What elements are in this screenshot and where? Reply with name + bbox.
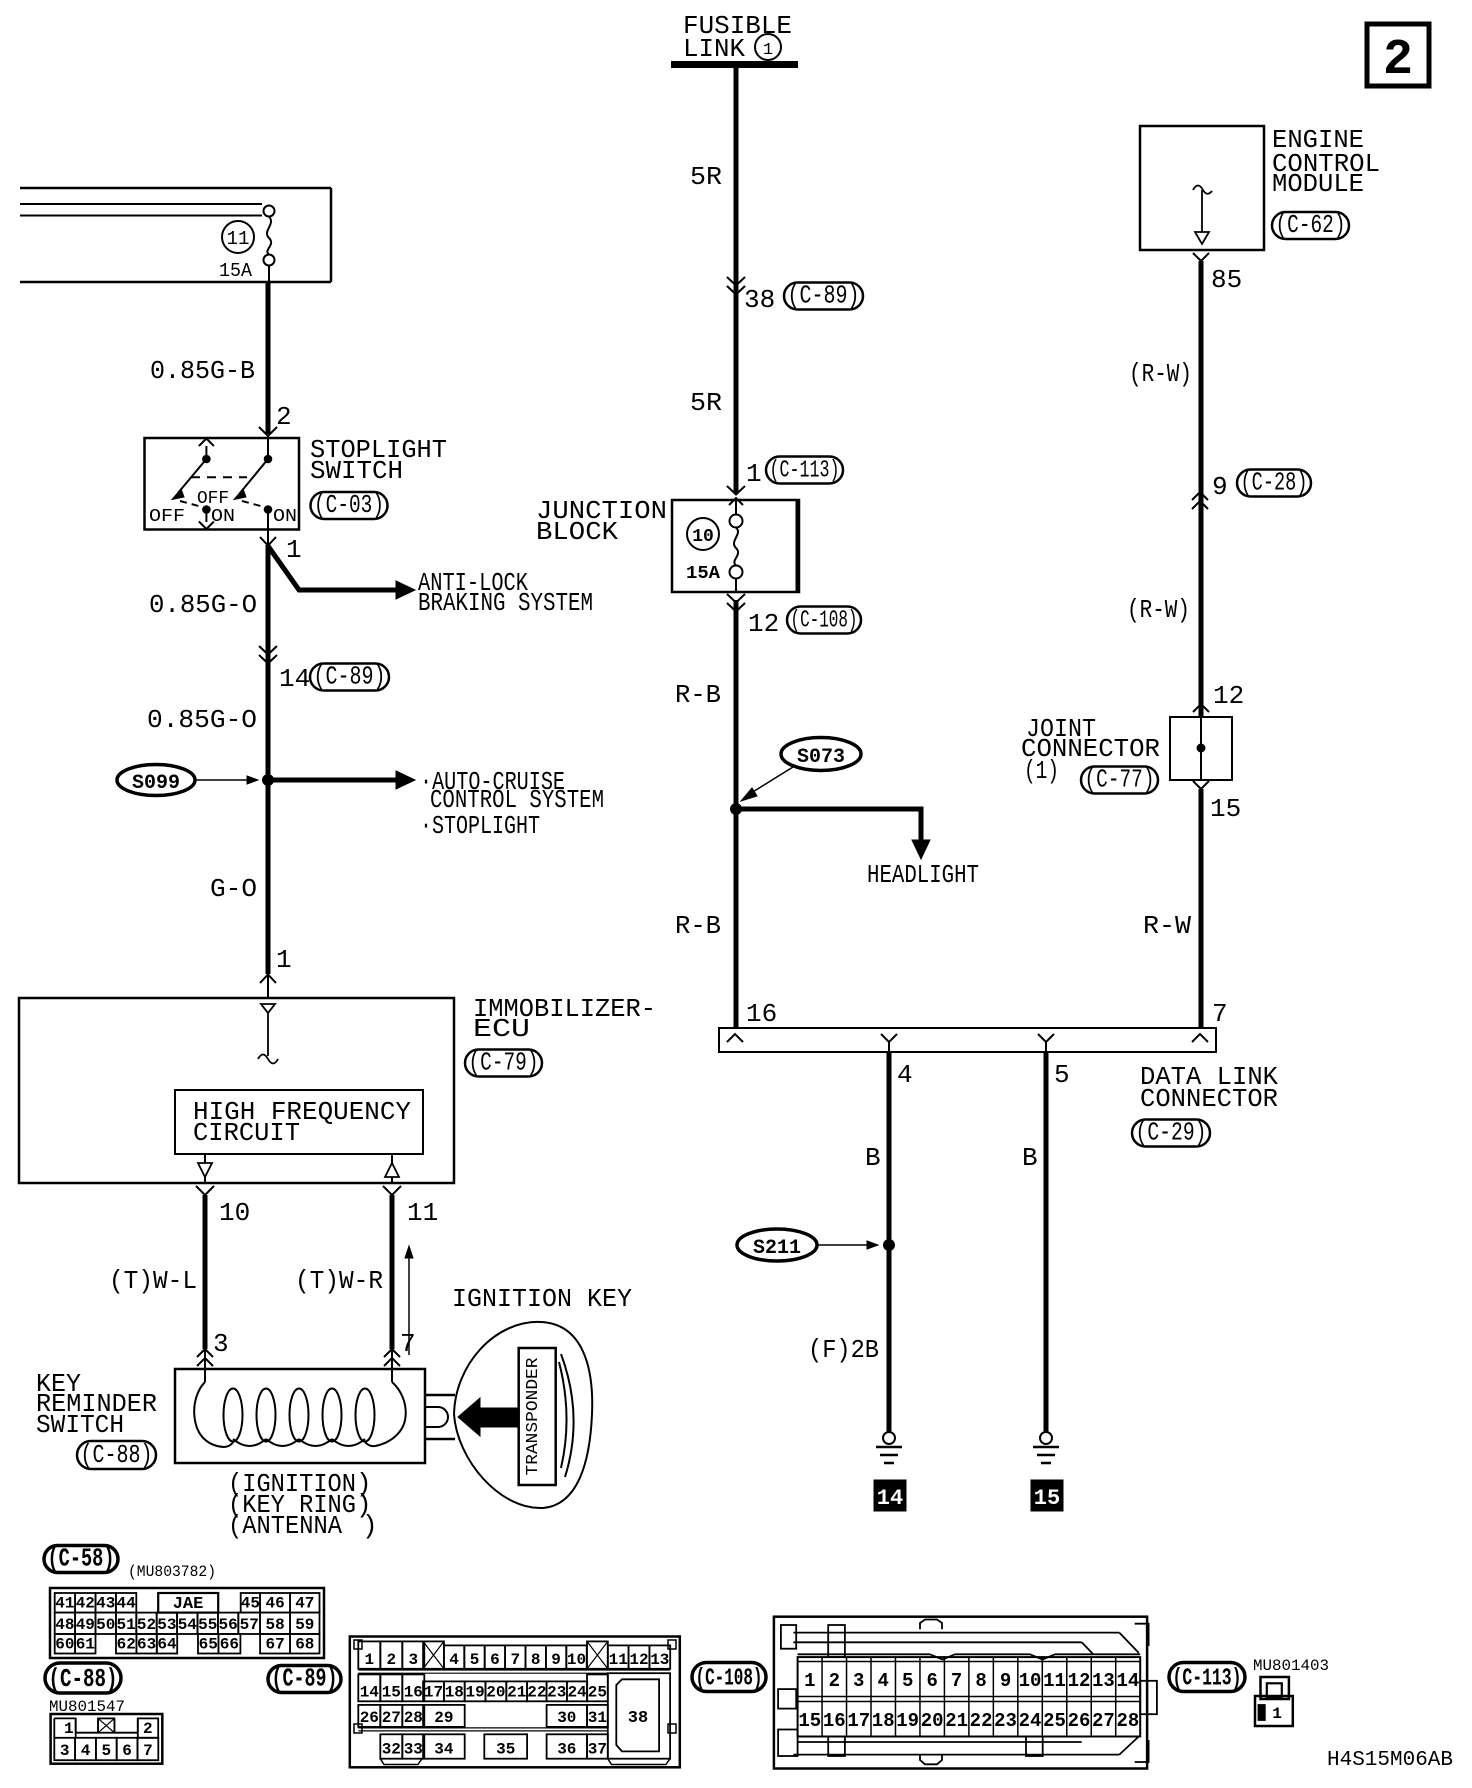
svg-text:10: 10 (567, 1651, 586, 1669)
wire label G-O (210, 874, 257, 904)
svg-text:(C-79): (C-79) (469, 1048, 539, 1078)
label MU801403 (1253, 1657, 1329, 1675)
svg-text:4: 4 (897, 1060, 913, 1090)
wire 5R (fusible link down) (690, 68, 736, 493)
connector pin diagram C-89 (350, 1637, 680, 1768)
junction block (top-left fragment) (20, 188, 331, 282)
junction node (S211 splice point) (884, 1240, 895, 1251)
svg-text:(C-28): (C-28) (1241, 468, 1308, 498)
svg-text:5: 5 (101, 1742, 111, 1760)
connector MU801403 pin diagram (1255, 1677, 1293, 1726)
svg-text:26: 26 (1068, 1710, 1091, 1732)
svg-text:BRAKING SYSTEM: BRAKING SYSTEM (418, 588, 593, 618)
svg-text:41: 41 (55, 1595, 74, 1613)
svg-text:11: 11 (609, 1651, 628, 1669)
svg-text:(F)2B: (F)2B (808, 1335, 879, 1365)
svg-text:2: 2 (386, 1651, 396, 1669)
splice S073 (741, 738, 861, 802)
svg-text:9: 9 (1212, 472, 1228, 502)
svg-text:85: 85 (1211, 265, 1242, 295)
svg-text:(R-W): (R-W) (1127, 595, 1190, 625)
svg-text:SWITCH: SWITCH (36, 1410, 124, 1440)
svg-text:12: 12 (1068, 1670, 1091, 1692)
connector label C-58 (44, 1544, 118, 1574)
node pin 7 of data link connector (1212, 999, 1228, 1029)
connector label C-88 (bottom) (45, 1663, 121, 1694)
splice S211 (737, 1229, 878, 1261)
svg-text:10: 10 (692, 527, 714, 547)
svg-text:21: 21 (945, 1710, 968, 1732)
svg-text:15: 15 (798, 1710, 821, 1732)
svg-text:62: 62 (117, 1636, 136, 1654)
connector label C-108 (bottom) (692, 1663, 766, 1693)
wire B (pin 5 to ground 15) (1022, 1052, 1046, 1432)
antenna symbol inside immobilizer ECU (258, 1004, 278, 1064)
connector label C-03 (311, 490, 388, 520)
connector pin diagram C-113 (774, 1617, 1157, 1769)
ground 14 (874, 1432, 906, 1511)
svg-text:52: 52 (137, 1616, 156, 1634)
terminal triangle (pin 10, open down) (198, 1154, 212, 1183)
svg-text:ON: ON (273, 507, 297, 527)
branch wire to anti-lock braking system (268, 546, 593, 618)
svg-text:43: 43 (96, 1595, 115, 1613)
svg-text:(1): (1) (1024, 756, 1059, 786)
svg-text:7: 7 (400, 1329, 416, 1359)
svg-text:18: 18 (872, 1710, 895, 1732)
svg-text:16: 16 (746, 999, 777, 1029)
svg-text:16: 16 (404, 1683, 423, 1701)
connector label C-89 (bottom) (268, 1664, 341, 1694)
wire G-O (splice to immobilizer pin 1) (266, 780, 271, 974)
node pin 1 of stoplight switch (260, 529, 302, 565)
svg-text:7: 7 (1212, 999, 1228, 1029)
svg-text:8: 8 (531, 1651, 541, 1669)
svg-text:H4S15M06AB: H4S15M06AB (1327, 1749, 1453, 1772)
splice S099 (117, 765, 258, 796)
svg-text:31: 31 (588, 1709, 607, 1727)
stoplight switch position labels (149, 489, 297, 527)
svg-text:(C-88): (C-88) (81, 1440, 153, 1470)
svg-text:1: 1 (276, 945, 292, 975)
svg-text:26: 26 (360, 1709, 379, 1727)
key head crescent detail (559, 1354, 574, 1477)
label ignition key ring antenna (228, 1469, 378, 1541)
wire label (F)2B (808, 1335, 879, 1365)
stoplight switch C-03 box (145, 438, 300, 530)
svg-text:66: 66 (220, 1636, 239, 1654)
svg-text:20: 20 (486, 1683, 505, 1701)
svg-text:56: 56 (218, 1616, 237, 1634)
node pin 16 of data link connector (746, 999, 777, 1029)
svg-text:(T)W-L: (T)W-L (109, 1266, 197, 1296)
svg-text:61: 61 (76, 1636, 95, 1654)
svg-text:50: 50 (96, 1616, 115, 1634)
svg-text:15: 15 (1034, 1486, 1060, 1511)
svg-text:10: 10 (1019, 1670, 1042, 1692)
svg-text:19: 19 (896, 1710, 919, 1732)
transponder arrow (points into key) (458, 1398, 519, 1436)
svg-text:0.85G-B: 0.85G-B (150, 356, 255, 386)
terminal triangle (pin 11, open up) (385, 1154, 399, 1183)
svg-text:34: 34 (434, 1741, 454, 1759)
high frequency circuit box (175, 1090, 423, 1154)
svg-text:(C-62): (C-62) (1276, 210, 1346, 240)
svg-text:57: 57 (240, 1616, 259, 1634)
svg-text:3: 3 (408, 1651, 418, 1669)
svg-text:S099: S099 (132, 772, 180, 795)
svg-text:(C-89): (C-89) (272, 1664, 338, 1694)
svg-text:CONNECTOR: CONNECTOR (1140, 1084, 1278, 1114)
svg-text:(R-W): (R-W) (1129, 359, 1192, 389)
junction block box (536, 496, 799, 592)
svg-text:5R: 5R (690, 388, 722, 418)
fuse 11 15A (219, 206, 275, 283)
svg-text:13: 13 (650, 1651, 669, 1669)
svg-text:38: 38 (744, 285, 775, 315)
inline connector 38 C-89 (727, 277, 863, 315)
svg-text:B: B (1022, 1143, 1038, 1173)
svg-text:MU801403: MU801403 (1253, 1657, 1329, 1675)
svg-text:(C-88): (C-88) (49, 1664, 118, 1694)
svg-text:65: 65 (199, 1636, 218, 1654)
svg-text:53: 53 (157, 1616, 176, 1634)
svg-text:(MU803782): (MU803782) (128, 1563, 216, 1581)
svg-text:13: 13 (1092, 1670, 1115, 1692)
svg-text:10: 10 (219, 1198, 250, 1228)
svg-text:11: 11 (407, 1198, 438, 1228)
wire 0.85G-O (pin 1 down) (266, 545, 271, 780)
svg-text:(C-113): (C-113) (1173, 1666, 1242, 1693)
svg-text:19: 19 (465, 1683, 484, 1701)
svg-text:46: 46 (265, 1595, 284, 1613)
svg-text:1: 1 (364, 1651, 374, 1669)
svg-text:28: 28 (1117, 1710, 1140, 1732)
svg-text:67: 67 (265, 1636, 284, 1654)
stoplight switch pole 2 contact (172, 439, 214, 530)
connector label C-88 (77, 1440, 156, 1470)
svg-text:60: 60 (55, 1636, 74, 1654)
svg-text:55: 55 (198, 1616, 217, 1634)
svg-text:51: 51 (116, 1616, 135, 1634)
svg-text:(C-108): (C-108) (791, 608, 858, 635)
node pin 15 of joint connector (1193, 781, 1241, 824)
svg-text:23: 23 (547, 1683, 566, 1701)
svg-text:7: 7 (951, 1670, 962, 1692)
label MU801547 (49, 1698, 125, 1716)
fuse 10 15A (junction block) (686, 498, 743, 592)
stoplight switch labels (310, 435, 447, 486)
svg-text:IGNITION KEY: IGNITION KEY (452, 1284, 632, 1314)
connector MU801547 pin diagram (51, 1714, 163, 1764)
wire R-B (junction block to splice S073) (675, 600, 736, 1028)
svg-text:1: 1 (64, 1720, 74, 1738)
svg-text:42: 42 (76, 1595, 95, 1613)
svg-text:MODULE: MODULE (1272, 169, 1364, 199)
svg-text:3: 3 (213, 1329, 229, 1359)
svg-text:7: 7 (143, 1742, 153, 1760)
svg-text:37: 37 (588, 1741, 607, 1759)
svg-text:30: 30 (557, 1709, 576, 1727)
junction node (S099 splice point) (263, 775, 274, 786)
node pin 12 C-108 (junction block exit) (727, 594, 861, 639)
wire B (pin 4 to ground 14) (865, 1052, 889, 1432)
key reminder switch labels (36, 1369, 157, 1440)
svg-text:54: 54 (178, 1616, 198, 1634)
svg-text:6: 6 (926, 1670, 937, 1692)
svg-text:0.85G-O: 0.85G-O (147, 705, 257, 735)
svg-text:12: 12 (629, 1651, 648, 1669)
wire label 0.85G-O (2nd) (147, 705, 257, 735)
svg-text:14: 14 (877, 1486, 903, 1511)
svg-text:ON: ON (211, 507, 235, 527)
node pin 4 (897, 1060, 913, 1090)
svg-text:1: 1 (763, 41, 773, 60)
junction node (S073 splice point) (731, 804, 742, 815)
svg-text:15: 15 (1210, 794, 1241, 824)
wire label 0.85G-O (149, 590, 257, 620)
svg-text:9: 9 (1000, 1670, 1011, 1692)
svg-text:(C-77): (C-77) (1085, 765, 1155, 795)
svg-text:B: B (865, 1143, 881, 1173)
inline connector 14 C-89 (259, 646, 389, 694)
svg-text:68: 68 (295, 1636, 314, 1654)
svg-text:16: 16 (823, 1710, 846, 1732)
svg-text:18: 18 (445, 1683, 464, 1701)
connector label C-113 (bottom) (1169, 1663, 1245, 1693)
svg-text:48: 48 (55, 1616, 74, 1634)
svg-text:27: 27 (382, 1709, 401, 1727)
wire (T)W-L (109, 1195, 205, 1369)
svg-text:CIRCUIT: CIRCUIT (193, 1118, 300, 1148)
svg-text:S073: S073 (797, 746, 845, 769)
svg-text:TRANSPONDER: TRANSPONDER (524, 1358, 543, 1476)
page number box 2 (1367, 24, 1429, 89)
immobilizer-ECU box C-79 (19, 998, 454, 1183)
svg-text:38: 38 (628, 1709, 648, 1728)
svg-text:6: 6 (490, 1651, 500, 1669)
svg-text:1: 1 (746, 459, 762, 489)
svg-text:47: 47 (295, 1595, 314, 1613)
svg-text:17: 17 (424, 1683, 443, 1701)
svg-text:59: 59 (295, 1616, 314, 1634)
data link connector labels (1132, 1062, 1278, 1148)
svg-text:6: 6 (122, 1742, 132, 1760)
svg-text:S211: S211 (753, 1237, 801, 1260)
svg-text:R-W: R-W (1143, 911, 1191, 941)
svg-text:2: 2 (829, 1670, 840, 1692)
node pin 10 (196, 1186, 250, 1228)
svg-text:7: 7 (510, 1651, 520, 1669)
svg-text:): ) (362, 1511, 378, 1541)
svg-text:(T)W-R: (T)W-R (295, 1266, 383, 1296)
svg-text:(C-89): (C-89) (788, 281, 860, 311)
svg-text:24: 24 (1019, 1710, 1042, 1732)
svg-text:4: 4 (81, 1742, 91, 1760)
svg-text:29: 29 (434, 1709, 453, 1727)
node pin 5 (1054, 1060, 1070, 1090)
wire R-W (joint connector to data link pin 7) (1143, 789, 1201, 1028)
svg-text:22: 22 (527, 1683, 546, 1701)
svg-text:5R: 5R (690, 162, 722, 192)
label ignition key (452, 1284, 632, 1314)
svg-text:33: 33 (404, 1741, 423, 1759)
ignition key head outline (454, 1322, 592, 1508)
svg-text:49: 49 (76, 1616, 95, 1634)
node pin 7 (384, 1329, 416, 1366)
svg-text:28: 28 (404, 1709, 423, 1727)
engine control module box C-62 (1140, 125, 1380, 250)
transponder box in key (519, 1348, 556, 1485)
svg-text:22: 22 (970, 1710, 993, 1732)
wire (bus lines into fuse 11) (20, 204, 262, 216)
svg-text:BLOCK: BLOCK (536, 517, 618, 547)
svg-text:(C-03): (C-03) (314, 490, 384, 520)
svg-text:20: 20 (921, 1710, 944, 1732)
svg-text:23: 23 (994, 1710, 1017, 1732)
label MU803782 (128, 1563, 216, 1581)
svg-text:5: 5 (470, 1651, 480, 1669)
joint connector (1) C-77 box (1021, 714, 1232, 795)
svg-text:(C-58): (C-58) (48, 1544, 115, 1574)
svg-text:44: 44 (116, 1595, 136, 1613)
svg-text:11: 11 (227, 228, 250, 250)
svg-text:OFF: OFF (197, 489, 229, 509)
svg-text:4: 4 (878, 1670, 889, 1692)
node pin 12 of joint connector (1193, 681, 1244, 712)
svg-text:LINK: LINK (683, 34, 745, 64)
connector pin table C-58 (MU803782) (50, 1588, 324, 1658)
svg-text:5: 5 (902, 1670, 913, 1692)
svg-text:JAE: JAE (173, 1595, 204, 1614)
svg-text:(C-108): (C-108) (696, 1666, 763, 1693)
data link connector bar (719, 1028, 1216, 1052)
node pin 85 of ECM (1193, 253, 1242, 295)
svg-text:14: 14 (360, 1683, 380, 1701)
svg-text:(C-113): (C-113) (770, 458, 840, 485)
key reminder switch box C-88 (175, 1369, 425, 1463)
svg-text:1: 1 (286, 535, 302, 565)
drawing number H4S15M06AB (1327, 1749, 1453, 1772)
branch wire to auto-cruise / stoplight (268, 767, 604, 841)
svg-text:4: 4 (449, 1651, 459, 1669)
svg-text:27: 27 (1092, 1710, 1115, 1732)
svg-text:R-B: R-B (675, 911, 721, 941)
svg-text:3: 3 (853, 1670, 864, 1692)
svg-text:14: 14 (1117, 1670, 1140, 1692)
svg-text:58: 58 (265, 1616, 284, 1634)
svg-text:2: 2 (276, 402, 292, 432)
stoplight switch pole 1 contact (234, 438, 272, 529)
svg-text:ECU: ECU (473, 1014, 530, 1044)
node pin 1 of immobilizer ECU (260, 945, 292, 998)
svg-text:HEADLIGHT: HEADLIGHT (867, 860, 979, 890)
ground 15 (1031, 1432, 1063, 1511)
svg-text:·STOPLIGHT: ·STOPLIGHT (420, 811, 540, 841)
svg-text:SWITCH: SWITCH (310, 456, 403, 486)
svg-text:63: 63 (137, 1636, 156, 1654)
svg-text:(C-89): (C-89) (314, 662, 386, 692)
inline connector 9 C-28 (1192, 468, 1311, 510)
svg-text:8: 8 (975, 1670, 986, 1692)
stoplight switch mechanical link (dashed) (191, 476, 247, 478)
svg-text:11: 11 (1043, 1670, 1066, 1692)
node pin 11 (383, 1186, 438, 1228)
node pin 1 C-113 (junction block entry) (727, 457, 843, 495)
svg-text:17: 17 (847, 1710, 870, 1732)
svg-text:(ANTENNA: (ANTENNA (228, 1511, 342, 1541)
svg-text:21: 21 (507, 1683, 526, 1701)
ignition key blade (425, 1395, 455, 1439)
svg-text:15A: 15A (219, 260, 253, 282)
svg-text:12: 12 (1213, 681, 1244, 711)
ignition key insertion arrow (405, 1246, 413, 1355)
svg-text:R-B: R-B (675, 680, 721, 710)
svg-text:25: 25 (588, 1683, 607, 1701)
svg-text:25: 25 (1043, 1710, 1066, 1732)
svg-text:1: 1 (1272, 1705, 1282, 1723)
svg-text:35: 35 (496, 1741, 515, 1759)
svg-text:15: 15 (382, 1683, 401, 1701)
svg-text:24: 24 (567, 1683, 587, 1701)
node pin 3 (197, 1329, 229, 1366)
svg-text:(C-29): (C-29) (1136, 1118, 1207, 1148)
svg-text:1: 1 (804, 1670, 815, 1692)
wire (T)W-R (295, 1195, 392, 1369)
connector label C-79 (465, 1048, 542, 1078)
svg-text:2: 2 (143, 1720, 153, 1738)
branch wire to headlight (736, 809, 979, 890)
svg-text:12: 12 (748, 609, 779, 639)
svg-text:36: 36 (557, 1741, 576, 1759)
immobilizer ECU labels (473, 994, 656, 1044)
svg-text:15A: 15A (686, 564, 720, 584)
svg-text:45: 45 (241, 1595, 260, 1613)
svg-text:3: 3 (60, 1742, 70, 1760)
svg-text:32: 32 (382, 1741, 401, 1759)
svg-text:0.85G-O: 0.85G-O (149, 590, 257, 620)
svg-text:9: 9 (551, 1651, 561, 1669)
svg-text:OFF: OFF (149, 507, 185, 527)
fusible link 1 (671, 11, 798, 65)
svg-text:64: 64 (157, 1636, 177, 1654)
svg-text:5: 5 (1054, 1060, 1070, 1090)
svg-text:G-O: G-O (210, 874, 257, 904)
svg-text:14: 14 (279, 664, 310, 694)
svg-text:2: 2 (1383, 32, 1413, 89)
ignition key ring antenna coil (194, 1369, 406, 1447)
wire 0.85G-B (fuse to stoplight switch pin 2) (150, 282, 292, 436)
wire (R-W) (ECM to joint connector) (1127, 261, 1201, 717)
